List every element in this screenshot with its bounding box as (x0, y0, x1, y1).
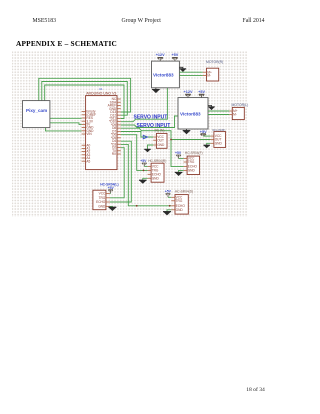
pin VCC (IR IN) (153, 136, 156, 138)
title: APPENDIX E - SCHEMATIC (16, 39, 117, 48)
pin TRG (SR04 R) (148, 169, 152, 171)
pin A4 (left 13) (82, 157, 86, 159)
wire SR04D GND to ground (167, 210, 171, 212)
wire U2 ground stub right (179, 67, 183, 69)
wire U3 ground stub right (208, 105, 212, 107)
wire IR-L GND to ground (207, 143, 211, 145)
microcontroller U1 ARDUINO UNO V3 box (86, 96, 117, 170)
wire IR(IN) GND to ground (148, 145, 154, 149)
pin D3 (right 15) (117, 143, 121, 145)
wire +5V to SR04D VCC (168, 196, 171, 198)
motor controller U2 Victor883 box (152, 61, 180, 88)
svg-text:TRG: TRG (188, 160, 195, 164)
pin AREF (right 3) (117, 104, 121, 106)
pin NC (right 1) (117, 98, 121, 100)
wire +5V to SR04R VCC (144, 165, 147, 167)
svg-text:MOTOR(R): MOTOR(R) (206, 60, 223, 64)
pin TRG (SR04 F) (184, 161, 188, 163)
svg-text:+5V: +5V (140, 159, 147, 163)
power flag +12V (U2) (156, 53, 165, 61)
svg-text:ECHO: ECHO (96, 200, 106, 204)
pin GND (SR04 F) (184, 169, 188, 171)
ground below SR04R (139, 180, 147, 184)
pin D8 (right 10) (117, 127, 121, 129)
sonar HC-SR04(L) box (93, 190, 106, 210)
ground below SR04F (175, 172, 183, 176)
wire D4 to HC-SR04(L) ECHO (110, 141, 131, 202)
svg-text:GND: GND (215, 141, 223, 145)
svg-text:+5V: +5V (175, 151, 182, 155)
wire servo input left (D9 to Victor883 U3) (121, 116, 178, 128)
svg-text:Pixy_cam: Pixy_cam (26, 108, 47, 113)
svg-text:M-: M- (233, 113, 237, 117)
wire U3 ground stub bottom (186, 129, 188, 131)
pin D10 (right 8) (117, 121, 121, 123)
pin VCC (SR04 L) (106, 192, 110, 194)
svg-text:M-: M- (207, 74, 211, 78)
header center: project name (122, 18, 161, 24)
ground below SR04L (108, 207, 116, 211)
sonar HC-SR04(F) box (187, 156, 200, 174)
power flag +5V (U2) (171, 53, 178, 61)
motor controller U3 Victor883 box (178, 98, 208, 129)
wire SR04R GND to ground (143, 178, 148, 180)
svg-text:ARDUINO UNO V3: ARDUINO UNO V3 (86, 92, 116, 96)
net flag arrow on IR VCC wire (143, 135, 147, 139)
connector MOTOR(L) box (232, 107, 244, 119)
schematic dotted grid background (12, 51, 248, 217)
svg-text:+5V: +5V (108, 186, 115, 190)
header right: term (243, 18, 265, 24)
wire Pixy SPI SCK (D13 loop outer) (39, 78, 131, 112)
svg-text:IR( IN): IR( IN) (155, 129, 165, 133)
svg-text:SERVO INPUT: SERVO INPUT (134, 115, 168, 121)
svg-text:+5V: +5V (198, 90, 205, 94)
wire +5V to IR-L VCC (203, 135, 210, 137)
ground below IR(IN) (144, 149, 151, 152)
ground below U3 (183, 131, 191, 135)
pin D12 (right 6) (117, 114, 121, 116)
svg-text:MOTOR(L): MOTOR(L) (232, 103, 249, 107)
ground at U3 right (208, 107, 215, 110)
ground below U2 (152, 90, 160, 94)
pin GND (IR IN) (153, 144, 156, 146)
svg-text:+5V: +5V (165, 190, 172, 194)
wire +5V to SR04L VCC (109, 192, 112, 194)
pin GND (left 7) (82, 130, 86, 132)
svg-text:GND: GND (98, 205, 106, 209)
pin ECHO (SR04 D) (171, 205, 175, 207)
power flag +5V symbol (SR04 L) (108, 190, 113, 194)
wire SR04L GND to ground (110, 205, 113, 208)
svg-text:OUT: OUT (157, 138, 164, 142)
wire D3 to HC-SR04(D) ECHO (121, 144, 172, 205)
pin M- (MOTOR L) (229, 114, 232, 116)
pin TX (right 17) (117, 150, 121, 152)
wire D6 to HC-SR04(R) TRG (121, 135, 148, 171)
pin D11 (right 7) (117, 117, 121, 119)
svg-text:+5V: +5V (171, 53, 178, 57)
pin IOREF (left 2) (82, 114, 86, 116)
wire SR04F GND to ground (179, 170, 184, 172)
connector MOTOR(R) box (207, 68, 219, 81)
svg-text:+12V: +12V (156, 53, 165, 57)
pin VCC (SR04 R) (148, 165, 152, 167)
camera module Pixy_cam box (23, 101, 50, 128)
svg-text:A5: A5 (86, 159, 90, 163)
wire D8 to IR-L OUT / SR04F ECHO (121, 128, 184, 166)
power flag +5V (U3) (198, 90, 205, 98)
svg-text:SERVO INPUT: SERVO INPUT (137, 123, 171, 129)
power flag +5V symbol (SR04 R) (142, 163, 147, 166)
pin A5 (left 14) (82, 160, 86, 162)
wire +5V to SR04F VCC (179, 158, 184, 160)
sonar HC-SR04(D) box (175, 195, 188, 215)
pin D7 (right 11) (117, 130, 121, 132)
svg-text:GND: GND (157, 143, 165, 147)
sensor IR(IN) box (156, 133, 167, 148)
wire Pixy SPI MOSI (D11 loop inner) (45, 85, 124, 119)
svg-text:GND: GND (188, 169, 196, 173)
wire Pixy SPI MISO (D12 loop middle) (42, 82, 128, 116)
power flag +5V symbol (SR04 F) (176, 155, 181, 159)
pin OUT (IR IN) (153, 139, 156, 141)
pin D5 (right 13) (117, 137, 121, 139)
pin D2 (right 16) (117, 147, 121, 149)
ground at U2 right (180, 69, 187, 72)
pin D9 (right 9) (117, 124, 121, 126)
footer page number (246, 387, 265, 393)
junction on ECHO D wire 2 (169, 205, 171, 207)
pin ECHO (SR04 F) (184, 166, 188, 168)
junction D8/OUT branch (170, 139, 172, 141)
pin A0 (left 9) (82, 144, 86, 146)
pin VCC (IR-L) (210, 135, 214, 137)
wire servo input right (D10 to Victor883 U2) (121, 88, 168, 122)
pin M+ (MOTOR L) (229, 110, 232, 112)
pin D13 (right 5) (117, 111, 121, 113)
power flag +12V (U3) (184, 90, 193, 98)
pin GND (IR-L) (210, 142, 214, 144)
pin A2 (left 11) (82, 151, 86, 153)
ground below IR-L (203, 145, 210, 148)
pin OUT (IR-L) (210, 139, 214, 141)
svg-text:+12V: +12V (184, 90, 193, 94)
wire branch to IR-L(N/R) OUT (171, 139, 210, 141)
sonar HC-SR04(R) box (151, 163, 164, 182)
wire Pixy to Arduino RES (50, 117, 82, 119)
pin ECHO (SR04 R) (148, 173, 152, 175)
svg-text:U1: U1 (99, 87, 103, 91)
pin GND (right 4) (117, 108, 121, 110)
svg-text:HC-SR04(F): HC-SR04(F) (185, 151, 203, 155)
svg-text:HC-SR04(D): HC-SR04(D) (175, 190, 193, 194)
junction on ECHO D wire 1 (136, 205, 138, 207)
pin VIN (left 8) (82, 133, 86, 135)
pin TRG (SR04 D) (171, 200, 175, 202)
wire D7 to IR(IN) VCC (121, 132, 153, 138)
pin GND (SR04 D) (171, 209, 175, 211)
pin TRG (SR04 L) (106, 197, 110, 199)
pin GND (SR04 R) (148, 177, 152, 179)
pin D6 (right 12) (117, 134, 121, 136)
wire U2 ground stub bottom (155, 88, 157, 90)
pin 5V (left 5) (82, 123, 86, 125)
pin M- (MOTOR R) (203, 75, 207, 77)
pin RES (left 3) (82, 117, 86, 119)
junction on SR04R TRG wire (143, 170, 145, 172)
wire U3 M- to MOTOR(L) (208, 114, 229, 116)
sensor IR-L(N/R) box (214, 132, 226, 148)
pin GND (left 6) (82, 127, 86, 129)
pin SDA (right 2) (117, 101, 121, 103)
svg-text:GND: GND (176, 208, 184, 212)
wire U3 M+ to MOTOR(L) (208, 110, 229, 112)
pin 3.3V (left 4) (82, 120, 86, 122)
pin Empty (left 1) (82, 111, 86, 113)
ground below SR04D (163, 212, 171, 216)
pin ECHO (SR04 L) (106, 201, 110, 203)
svg-text:Victor883: Victor883 (153, 72, 174, 77)
power flag +5V symbol (SR04 D) (166, 194, 171, 198)
pin GND (SR04 L) (106, 205, 110, 207)
power flag +5V (IR-L) (200, 130, 207, 136)
svg-text:GND: GND (152, 176, 160, 180)
wire D2 to HC-SR04(L) TRG (110, 148, 124, 198)
svg-text:HC-SR04(R): HC-SR04(R) (148, 159, 166, 163)
svg-text:Victor883: Victor883 (180, 111, 201, 116)
wire U2 M- to MOTOR(R) (179, 75, 202, 77)
header left: course number (33, 18, 57, 24)
svg-text:VIN: VIN (86, 132, 92, 136)
pin M+ (MOTOR R) (203, 71, 207, 73)
wire Pixy to Arduino 5V (50, 123, 82, 125)
pin D4 (right 14) (117, 140, 121, 142)
pin A1 (left 10) (82, 147, 86, 149)
pin A3 (left 12) (82, 154, 86, 156)
svg-text:TRG: TRG (176, 199, 183, 203)
pin VCC (SR04 F) (184, 158, 188, 160)
wire U2 M+ to MOTOR(R) (179, 71, 202, 73)
pin VCC (SR04 D) (171, 196, 175, 198)
wire Pixy to Arduino GND (46, 128, 82, 131)
svg-text:VCC: VCC (99, 192, 106, 196)
pin RX (right 18) (117, 153, 121, 155)
